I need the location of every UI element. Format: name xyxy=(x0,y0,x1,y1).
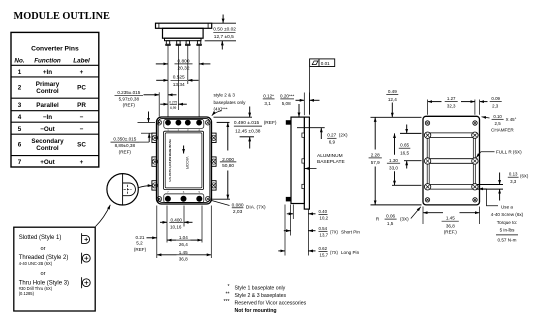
svg-text:0.21: 0.21 xyxy=(136,235,145,240)
svg-text:0.57 N-m: 0.57 N-m xyxy=(498,237,517,242)
svg-text:0.50 ±0.02: 0.50 ±0.02 xyxy=(213,27,236,33)
svg-text:(3X): (3X) xyxy=(400,216,409,221)
svg-text:VICOR: VICOR xyxy=(185,157,190,170)
svg-text:−Out: −Out xyxy=(40,126,55,133)
svg-text:(REF): (REF) xyxy=(134,247,147,252)
table converter pins xyxy=(11,32,99,167)
svg-text:5: 5 xyxy=(18,126,22,133)
svg-text:SC: SC xyxy=(77,142,86,149)
svg-text:+Out: +Out xyxy=(40,159,55,166)
svg-text:5,2: 5,2 xyxy=(136,241,143,246)
svg-text:PR: PR xyxy=(77,102,86,109)
svg-text:(0.1285): (0.1285) xyxy=(19,291,35,296)
svg-text:6,9: 6,9 xyxy=(329,140,336,145)
svg-text:(REF.): (REF.) xyxy=(444,230,457,235)
svg-text:(6X): (6X) xyxy=(520,174,529,179)
svg-text:or: or xyxy=(41,246,46,252)
svg-text:0.13: 0.13 xyxy=(509,172,518,177)
svg-text:1.45: 1.45 xyxy=(446,215,455,220)
svg-text:2,03: 2,03 xyxy=(233,209,243,215)
front view bottom pin numbers xyxy=(167,190,200,194)
svg-text:Not for mounting: Not for mounting xyxy=(235,308,277,314)
svg-text:MODULE OUTLINE: MODULE OUTLINE xyxy=(14,11,111,22)
svg-text:4-40 Screw (6x): 4-40 Screw (6x) xyxy=(491,212,524,217)
svg-text:Use a: Use a xyxy=(501,204,513,209)
dimension 0.21 / 5,2 (REF) xyxy=(134,235,157,252)
svg-text:0.62: 0.62 xyxy=(319,246,328,251)
front view corner screws xyxy=(157,120,210,201)
svg-text:+In: +In xyxy=(43,69,52,76)
svg-text:0.20***: 0.20*** xyxy=(280,93,295,98)
label full r (6x) xyxy=(476,150,522,158)
front view bottom pin strip xyxy=(164,194,204,203)
svg-text:DIA. (7X): DIA. (7X) xyxy=(246,205,266,211)
svg-text:−In: −In xyxy=(43,114,52,121)
back view corner screws xyxy=(425,121,477,202)
svg-text:(REF): (REF) xyxy=(264,120,277,126)
svg-text:5,97±0,38: 5,97±0,38 xyxy=(119,96,140,101)
svg-text:20,32: 20,32 xyxy=(177,66,189,72)
svg-text:0.01: 0.01 xyxy=(321,61,330,66)
dimension 0.50 ±0.02 / 12,7 ±0,5 xyxy=(205,15,237,50)
svg-text:5 in-lbs: 5 in-lbs xyxy=(500,228,516,233)
svg-text:6: 6 xyxy=(18,142,22,149)
svg-text:(REF): (REF) xyxy=(119,149,132,154)
side view boss bumps xyxy=(302,133,304,189)
svg-text:Long Pin: Long Pin xyxy=(341,250,360,255)
front view tab screws xyxy=(152,135,216,188)
svg-text:4-40 UNC-2B (6X): 4-40 UNC-2B (6X) xyxy=(19,261,53,266)
svg-text:Secondary: Secondary xyxy=(31,138,64,145)
dimension 0.40 / 10,2 xyxy=(287,209,329,221)
dimension 1.45 / 36,8 xyxy=(157,250,212,262)
svg-text:0.275: 0.275 xyxy=(169,100,177,104)
svg-text:+: + xyxy=(80,69,84,76)
svg-text:33,0: 33,0 xyxy=(389,165,398,170)
svg-text:13,7: 13,7 xyxy=(320,232,329,237)
svg-text:10,16: 10,16 xyxy=(170,224,182,229)
dimension 0.525 / 13,34 xyxy=(156,75,198,88)
svg-text:CHAMFER: CHAMFER xyxy=(491,128,514,133)
svg-text:2,3: 2,3 xyxy=(492,103,499,108)
dimension 1.04 / 26,4 xyxy=(167,235,202,247)
svg-text:style 2 & 3: style 2 & 3 xyxy=(214,93,236,98)
front view body xyxy=(157,117,212,204)
svg-text:10,2: 10,2 xyxy=(320,216,329,221)
leader detail circle to front view xyxy=(139,186,153,188)
footnotes xyxy=(223,284,306,314)
svg-text:FULL R (6X): FULL R (6X) xyxy=(496,150,522,155)
svg-text:16,5: 16,5 xyxy=(400,150,409,155)
svg-text:6,99: 6,99 xyxy=(170,106,176,110)
svg-text:1.04: 1.04 xyxy=(179,235,188,240)
dimension 0.54 / 13,7 short pin xyxy=(284,226,361,238)
svg-text:3,1: 3,1 xyxy=(264,101,271,106)
svg-text:Converter Pins: Converter Pins xyxy=(31,46,79,53)
svg-text:No.: No. xyxy=(14,57,24,64)
svg-text:Style 1 baseplate only: Style 1 baseplate only xyxy=(235,285,286,291)
note style 2 & 3 baseplates only xyxy=(212,93,246,116)
svg-text:Function: Function xyxy=(34,57,61,64)
svg-text:(REF): (REF) xyxy=(123,102,136,107)
svg-text:(7X): (7X) xyxy=(330,230,339,235)
svg-text:0.800: 0.800 xyxy=(177,58,189,64)
svg-text:36,8: 36,8 xyxy=(446,223,455,228)
leader use a screw xyxy=(479,189,499,206)
extension lines pins xyxy=(159,46,199,117)
side view baseplate xyxy=(304,117,309,209)
svg-text:3: 3 xyxy=(18,102,22,109)
svg-text:Control: Control xyxy=(36,145,59,152)
svg-text:1,5: 1,5 xyxy=(387,221,394,226)
svg-text:0.10: 0.10 xyxy=(493,114,502,119)
dimension 2.000 / 50,80 xyxy=(212,122,237,199)
label aluminum baseplate xyxy=(305,153,345,169)
svg-text:0.06: 0.06 xyxy=(386,214,395,219)
svg-text:0.350±.015: 0.350±.015 xyxy=(113,137,136,142)
top view pins xyxy=(166,41,202,46)
svg-text:Label: Label xyxy=(73,57,90,64)
svg-text:2: 2 xyxy=(18,85,22,92)
svg-text:0.490 ±.015: 0.490 ±.015 xyxy=(234,120,260,126)
svg-text:1.27: 1.27 xyxy=(447,96,456,101)
svg-text:BASEPLATE: BASEPLATE xyxy=(317,159,345,165)
svg-text:0.54: 0.54 xyxy=(319,226,328,231)
dimension 0.080 DIA (7X) xyxy=(210,200,266,215)
svg-text:PC: PC xyxy=(77,85,86,92)
front view top pin strip xyxy=(164,120,204,129)
svg-text:Torque to:: Torque to: xyxy=(497,220,517,225)
svg-text:0.27: 0.27 xyxy=(327,133,336,138)
top view flange xyxy=(156,23,212,28)
svg-text:0.525: 0.525 xyxy=(173,75,185,81)
svg-text:12,4: 12,4 xyxy=(388,97,397,102)
extension lines below front view xyxy=(157,206,212,259)
extension lines pin lengths xyxy=(285,205,308,256)
svg-text:57,9: 57,9 xyxy=(371,160,380,165)
front view label window xyxy=(164,131,204,189)
svg-text:0.235±.015: 0.235±.015 xyxy=(117,90,140,95)
svg-text:−: − xyxy=(80,114,84,121)
svg-text:*: * xyxy=(227,284,229,290)
dimension 0.350 ±.015 (REF) xyxy=(111,112,156,155)
svg-text:4: 4 xyxy=(18,114,22,121)
front view mounting tabs right xyxy=(211,133,216,190)
dimension 0.12 / 3,1 xyxy=(263,93,275,105)
svg-text:0.49: 0.49 xyxy=(388,89,397,94)
svg-text:2,5: 2,5 xyxy=(495,121,502,126)
svg-text:5,08: 5,08 xyxy=(282,101,291,106)
front view top pin numbers xyxy=(167,128,200,132)
svg-text:1.45: 1.45 xyxy=(179,250,188,255)
dimension 0.65 / 16,5 xyxy=(399,125,422,169)
svg-text:−: − xyxy=(80,126,84,133)
svg-text:1.30: 1.30 xyxy=(389,158,398,163)
svg-text:12,45 ±0,38: 12,45 ±0,38 xyxy=(235,128,261,134)
dimension 0.490 ±.015 (REF) xyxy=(214,107,277,149)
svg-text:12,7 ±0,5: 12,7 ±0,5 xyxy=(214,34,234,40)
dimension 2.28 / 57,9 xyxy=(369,117,422,205)
front view mounting tabs left xyxy=(152,133,157,190)
dimension 0.62 / 15,7 long pin xyxy=(278,246,359,258)
dimension 0.27 / 6,9 (2X) xyxy=(297,104,348,145)
svg-text:Slotted (Style 1): Slotted (Style 1) xyxy=(19,235,62,241)
svg-text:***: *** xyxy=(223,299,229,305)
flatness feature control frame 0.01 xyxy=(310,59,335,114)
note use a 4-40 screw xyxy=(491,204,524,242)
leader styles box to detail circle xyxy=(96,205,111,227)
dimension 0.49 / 12,4 xyxy=(386,89,398,118)
detail circle slot xyxy=(107,174,138,205)
back view rails xyxy=(427,133,475,189)
svg-text:0.12*: 0.12* xyxy=(263,93,274,98)
svg-text:Short Pin: Short Pin xyxy=(341,230,360,235)
svg-text:32,3: 32,3 xyxy=(447,103,456,108)
svg-text:1: 1 xyxy=(18,69,22,76)
dimension 0.09 / 2,3 xyxy=(480,96,502,115)
svg-text:0.65: 0.65 xyxy=(400,143,409,148)
svg-text:15,7: 15,7 xyxy=(320,253,329,258)
side view pins xyxy=(286,120,291,201)
svg-text:(7X): (7X) xyxy=(330,250,339,255)
dimension 0.235 ±.015 (REF) xyxy=(115,90,177,108)
dimension R 0.06 (3X) xyxy=(376,207,421,226)
svg-text:**: ** xyxy=(225,292,229,298)
svg-text:X 45°: X 45° xyxy=(506,117,517,122)
svg-text:or: or xyxy=(41,271,46,277)
svg-text:36,8: 36,8 xyxy=(179,257,188,262)
dimension 0.13 / 3,3 (6X) xyxy=(477,172,529,201)
svg-text:Control: Control xyxy=(36,88,59,95)
svg-text:U.S. PATS 4,415,959 MADE IN U: U.S. PATS 4,415,959 MADE IN USA xyxy=(168,139,172,182)
dimension 0.800 / 20,32 xyxy=(156,58,211,71)
back view body xyxy=(423,116,480,205)
svg-text:0.400: 0.400 xyxy=(170,217,182,222)
front view label text xyxy=(168,139,190,182)
svg-text:8,89±0,38: 8,89±0,38 xyxy=(115,143,136,148)
svg-text:0.40: 0.40 xyxy=(319,209,328,214)
side view body xyxy=(291,117,304,203)
svg-text:26,4: 26,4 xyxy=(179,242,188,247)
svg-text:50,80: 50,80 xyxy=(222,163,234,169)
top view body xyxy=(163,28,204,40)
svg-text:baseplates only: baseplates only xyxy=(214,100,247,105)
dimension 1.27 / 32,3 xyxy=(428,96,475,115)
svg-text:ALUMINUM: ALUMINUM xyxy=(317,153,343,159)
svg-text:13,34: 13,34 xyxy=(173,82,185,88)
dimension 1.45 / 36,8 (REF.) xyxy=(423,207,480,235)
svg-text:Parallel: Parallel xyxy=(36,102,59,109)
dimension 0.400 / 10,16 xyxy=(160,217,193,229)
svg-text:+: + xyxy=(80,159,84,166)
dimension 1.30 / 33,0 xyxy=(387,133,422,185)
svg-text:0.09: 0.09 xyxy=(491,96,500,101)
dimension 0.275 / 6,99 xyxy=(160,100,187,110)
styles box xyxy=(14,227,95,311)
svg-text:7: 7 xyxy=(18,159,22,166)
svg-text:(2X): (2X) xyxy=(339,133,348,138)
svg-text:3,3: 3,3 xyxy=(510,179,517,184)
svg-text:Style 2 & 3 baseplates: Style 2 & 3 baseplates xyxy=(235,293,287,299)
back view boss screws xyxy=(424,132,478,190)
svg-text:2.28: 2.28 xyxy=(371,152,380,157)
svg-text:Primary: Primary xyxy=(36,81,60,88)
dimension 0.10 chamfer xyxy=(482,114,517,133)
dimension 0.20 / 5,08 xyxy=(280,93,319,116)
svg-text:Reserved for Vicor accessories: Reserved for Vicor accessories xyxy=(235,300,307,306)
